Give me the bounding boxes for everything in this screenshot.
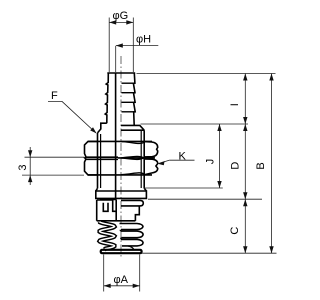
D arrows [243,124,247,131]
nut2 left face (section) [85,159,98,175]
3 arrows (outside) [28,150,32,157]
svg-text:φH: φH [136,34,151,46]
nut interface lines [86,156,118,158]
svg-text:φA: φA [114,274,129,286]
pad holder [97,200,144,221]
B arrows [269,74,273,81]
chamfer arc below nut1 top [121,142,144,144]
phiA arrows [104,284,111,288]
svg-text:J: J [204,159,216,165]
phiH arrow [116,43,123,47]
body right thread line [140,131,142,188]
nut2 bottom edge [88,174,152,176]
top ext line [137,73,276,75]
body left wall [97,133,99,188]
K leader [169,159,194,161]
bellows right tongues (exterior) [120,224,144,250]
hose barb (part outline, thick) [96,73,147,199]
phiA dim line [104,285,140,287]
pad bore [115,200,117,221]
interface rhombus upper arc [121,156,144,157]
interface rhombus lower arc [121,158,144,159]
D line [244,124,246,199]
svg-text:3: 3 [17,165,29,171]
body left thread line [100,134,102,188]
svg-text:D: D [229,162,241,170]
svg-text:C: C [229,227,241,235]
phiG extension lines [108,18,110,73]
arrowheads [28,20,274,288]
phiH dim line [116,45,159,47]
3 dim line [29,147,31,185]
D ext line [148,198,262,200]
bellows left serpentine (section) [100,222,115,250]
svg-text:K: K [179,150,187,162]
body right wall [143,130,145,188]
bottom ext line [142,252,277,254]
body bottom wedges [96,188,98,191]
svg-text:F: F [51,90,58,102]
F arrowhead [90,127,96,133]
barb right edge with ridges [133,73,135,125]
centerline [120,56,122,258]
F leader [48,101,96,133]
nut1 top edge [88,140,152,142]
chamfer base circle line [121,129,144,131]
phiH ext [115,46,117,72]
svg-text:φG: φG [113,10,129,22]
left interface point [85,157,86,159]
bottom plate [96,191,147,198]
dimensions (thin) [22,18,277,292]
barb left serrated edge [105,73,108,123]
right shoulder at barb base [121,125,144,130]
J line [219,124,221,188]
phiG dim line [109,21,133,23]
holder nut band right [121,200,143,206]
nut2 right corner lobe [144,159,158,175]
mid ext line (y=124) [141,123,249,125]
svg-text:B: B [255,162,267,169]
barb top face [107,72,135,74]
J ext line [144,187,223,189]
holder left section outline [97,200,117,211]
I line [244,74,246,125]
C line [244,199,246,253]
pad lip [101,250,142,253]
J arrows [217,124,221,131]
3 ext lines [25,156,85,158]
barb ridge lines (right half) [122,82,135,84]
phiA ext lines [103,255,105,292]
chamfer arc above nut2 bottom [121,173,144,175]
I arrows [243,74,247,81]
holder right profile [135,206,139,221]
B line [271,74,273,254]
phiG arrows [109,20,116,24]
nut1 right corner lobe [144,142,158,157]
K arrowhead [158,161,165,165]
barb bore line (phi H) [115,73,117,199]
svg-text:I: I [229,103,241,106]
nut1 left face (section) [85,141,98,157]
C arrows [243,199,247,206]
left shoulder at barb base [98,123,107,133]
hex nut pair [85,141,158,175]
